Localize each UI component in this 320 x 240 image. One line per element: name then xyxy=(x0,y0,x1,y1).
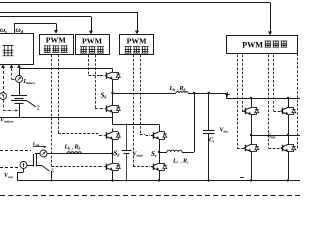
svg-text:3: 3 xyxy=(51,168,54,175)
svg-text:PWM: PWM xyxy=(46,36,67,45)
svg-text:2: 2 xyxy=(37,105,40,112)
svg-text:PWM: PWM xyxy=(82,36,103,45)
svg-text:PWM: PWM xyxy=(127,36,148,45)
svg-text:PWM: PWM xyxy=(242,41,263,50)
